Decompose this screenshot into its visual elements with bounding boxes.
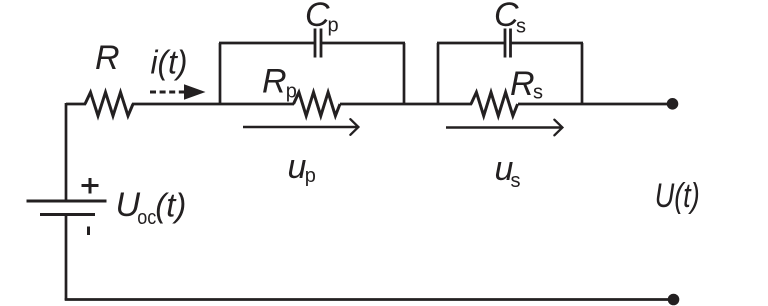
svg-text:R: R <box>510 65 535 103</box>
svg-text:s: s <box>533 82 543 104</box>
wire: Cs branch right vertical down to top rail <box>581 43 584 105</box>
svg-text:(t): (t) <box>155 186 186 223</box>
wire: Cs branch top left horizontal to capacitor plate <box>437 42 505 45</box>
label Rs <box>510 65 543 104</box>
battery Uoc: plus sign <box>82 178 99 194</box>
label Cp <box>305 0 339 37</box>
wire: top rail segment from left corner to resistor R <box>66 103 86 106</box>
svg-text:p: p <box>286 81 297 103</box>
wire: left rail vertical from top corner down to battery <box>65 103 68 201</box>
wire: bottom rail to negative output terminal <box>65 298 674 301</box>
svg-text:u: u <box>288 148 307 186</box>
battery Uoc: short negative plate <box>40 213 95 216</box>
wire: Cs branch top right horizontal from capacitor plate <box>511 42 584 45</box>
wire: Cs branch left vertical from top rail up <box>437 43 440 105</box>
battery Uoc: long positive plate <box>27 200 107 203</box>
svg-text:p: p <box>328 15 339 37</box>
wire: Cp branch left vertical from top rail up <box>219 43 222 105</box>
wire: dashed current arrow i(t) <box>150 84 206 100</box>
label U(t) (terminal voltage) <box>655 177 700 215</box>
label us (voltage across Rs) <box>495 150 521 192</box>
node: positive output terminal dot <box>667 98 679 110</box>
wire: Cp branch top right horizontal from capacitor plate <box>321 42 405 45</box>
label i(t) (current) <box>151 44 188 81</box>
wire: top rail segment from R to node of Rp/Cp branch <box>132 103 294 106</box>
label R (series resistor) <box>95 39 120 77</box>
label Rp <box>262 62 297 102</box>
svg-text:U(t): U(t) <box>655 177 700 215</box>
label up (voltage across Rp) <box>288 148 316 187</box>
resistor Rp <box>294 92 341 116</box>
resistor Rs <box>471 92 518 116</box>
svg-text:p: p <box>305 165 316 187</box>
node: negative output terminal dot <box>668 294 680 306</box>
wire: Cp branch right vertical down to top rail <box>403 43 406 105</box>
wire: top rail segment from Rp to node of Rs/Cs branch <box>340 103 472 106</box>
svg-text:i(t): i(t) <box>151 44 188 81</box>
svg-text:R: R <box>95 39 120 77</box>
capacitor Cp <box>315 29 321 58</box>
svg-text:s: s <box>511 170 521 192</box>
label Uoc(t) (open-circuit voltage source) <box>116 186 187 229</box>
wire: top rail segment from Rs to positive output terminal <box>518 103 673 106</box>
wire: Cp branch top left horizontal to capacitor plate <box>219 42 315 45</box>
label Cs <box>494 0 526 38</box>
svg-text:oc: oc <box>137 207 156 229</box>
svg-text:R: R <box>262 62 287 100</box>
resistor R <box>85 92 133 116</box>
wire: voltage arrow for up <box>243 119 358 135</box>
wire: left rail vertical from battery down to bottom corner <box>65 215 68 301</box>
svg-text:s: s <box>516 16 526 38</box>
capacitor Cs <box>505 29 511 58</box>
svg-text:C: C <box>305 0 330 34</box>
battery Uoc: minus mark <box>87 227 90 236</box>
wire: voltage arrow for us <box>446 120 562 136</box>
